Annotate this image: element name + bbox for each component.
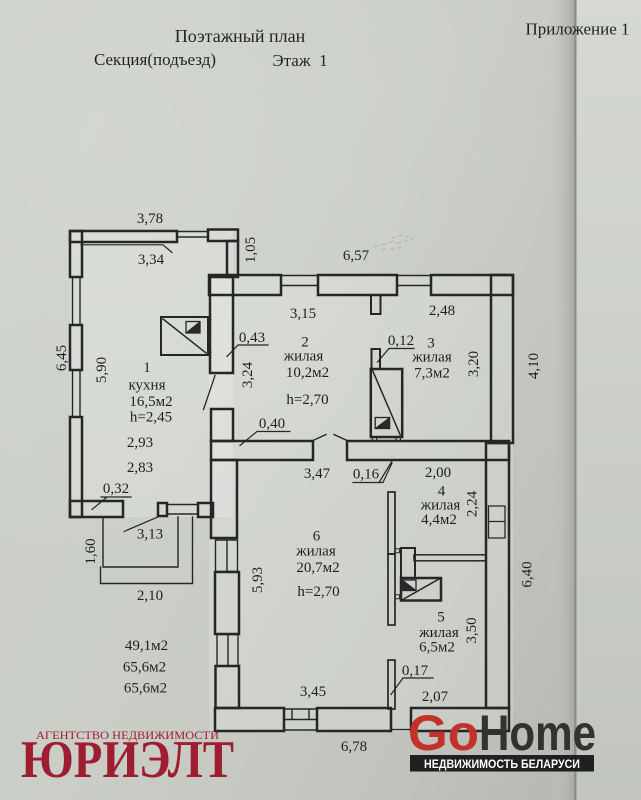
svg-text:10,2м2: 10,2м2 xyxy=(286,365,329,381)
svg-text:жилая: жилая xyxy=(411,350,452,366)
room 6 left wall window 1 xyxy=(216,540,238,572)
right strip beyond page edge xyxy=(577,0,641,800)
pointer 0,17 xyxy=(391,678,433,695)
kitchen bottom wall right block xyxy=(198,503,213,517)
pointer 0,32 xyxy=(92,497,131,510)
svg-text:Go: Go xyxy=(408,705,479,761)
paper shadow band left of page edge xyxy=(548,0,574,800)
svg-text:1,60: 1,60 xyxy=(83,538,99,564)
divider rooms 4-5 thin wall xyxy=(414,555,486,561)
svg-text:5,93: 5,93 xyxy=(250,567,266,593)
svg-text:5,90: 5,90 xyxy=(94,357,110,383)
double door swing at hall opening xyxy=(313,435,347,441)
GoHome band xyxy=(410,755,594,772)
svg-text:Приложение 1: Приложение 1 xyxy=(526,20,630,39)
pointer 0,12 xyxy=(378,349,415,363)
faint pencil note xyxy=(374,235,414,250)
svg-text:20,7м2: 20,7м2 xyxy=(296,560,339,576)
bottom wall solid right xyxy=(411,708,509,731)
svg-text:3,34: 3,34 xyxy=(138,252,165,268)
svg-text:2,00: 2,00 xyxy=(425,465,451,481)
svg-text:1: 1 xyxy=(143,360,151,376)
pointer 0,40 xyxy=(240,432,290,446)
svg-text:49,1м2: 49,1м2 xyxy=(125,638,168,654)
page edge dark line xyxy=(574,0,577,800)
kitchen bottom wall small pier xyxy=(158,503,167,516)
partition ticks xyxy=(395,549,400,599)
svg-text:кухня: кухня xyxy=(128,378,165,394)
svg-text:Home: Home xyxy=(479,705,596,761)
svg-text:Секция(подъезд): Секция(подъезд) xyxy=(94,50,216,69)
left wall window band lower xyxy=(73,370,81,417)
svg-text:65,6м2: 65,6м2 xyxy=(124,681,167,697)
svg-text:6,57: 6,57 xyxy=(343,248,370,264)
svg-text:3,47: 3,47 xyxy=(304,466,331,482)
bottom wall window xyxy=(284,709,317,730)
room 6 left wall solid mid xyxy=(215,572,239,634)
svg-text:2,24: 2,24 xyxy=(465,490,481,517)
partition room6-room5 lower xyxy=(388,660,395,709)
porch step outer xyxy=(101,517,193,584)
svg-text:h=2,45: h=2,45 xyxy=(130,410,172,426)
svg-text:6,5м2: 6,5м2 xyxy=(419,640,455,656)
svg-text:3,78: 3,78 xyxy=(137,211,163,227)
main top wall solid 2 xyxy=(318,275,397,295)
pointer 0,43 xyxy=(227,345,268,357)
hallway wall 0,40 horizontal xyxy=(211,441,313,460)
svg-text:h=2,70: h=2,70 xyxy=(286,392,328,408)
left outer wall solid top xyxy=(70,231,82,277)
svg-text:6: 6 xyxy=(313,529,321,545)
window room 2 in top wall xyxy=(281,276,318,286)
svg-text:2,10: 2,10 xyxy=(137,588,163,604)
window room 3 in top wall xyxy=(397,276,431,286)
svg-text:0,32: 0,32 xyxy=(103,481,129,497)
svg-text:0,17: 0,17 xyxy=(402,663,429,679)
window room 4 right wall xyxy=(489,506,506,538)
right outer wall upper block xyxy=(491,275,513,443)
room 6 left wall solid bottom xyxy=(216,666,240,708)
svg-text:жилая: жилая xyxy=(295,544,336,560)
inner dim line under top wall xyxy=(81,245,172,253)
svg-text:0,16: 0,16 xyxy=(353,467,380,483)
svg-text:жилая: жилая xyxy=(283,349,324,365)
neck wall between porch block and main block xyxy=(227,241,238,277)
stove room 5 xyxy=(401,578,441,601)
svg-text:3,24: 3,24 xyxy=(240,361,256,388)
room 6 left wall solid top xyxy=(211,460,237,538)
chimney stub above stove room 3 xyxy=(372,349,381,369)
partition room6-room5 mid xyxy=(388,554,395,625)
partition stub rooms 2-3 under top wall xyxy=(371,295,381,314)
svg-text:3,20: 3,20 xyxy=(466,351,482,377)
kitchen-room2 divider wall upper xyxy=(210,277,233,373)
bottom wall solid mid xyxy=(317,708,391,731)
svg-text:6,45: 6,45 xyxy=(54,345,70,371)
stove room 3 xyxy=(371,369,402,437)
partition room6-room4 upper xyxy=(388,492,395,554)
svg-text:0,43: 0,43 xyxy=(239,330,265,346)
main top wall solid 1 xyxy=(209,275,281,295)
window in porch top wall xyxy=(177,232,208,238)
hall wall right segment xyxy=(347,441,509,460)
left wall pier block between windows xyxy=(70,325,82,370)
svg-text:3,15: 3,15 xyxy=(290,306,316,322)
svg-text:3,13: 3,13 xyxy=(137,527,163,543)
svg-text:2,83: 2,83 xyxy=(127,460,153,476)
svg-text:2,48: 2,48 xyxy=(429,303,455,319)
svg-text:h=2,70: h=2,70 xyxy=(297,584,339,600)
svg-text:2,93: 2,93 xyxy=(127,435,153,451)
left wall window band upper xyxy=(73,277,81,325)
kitchen bottom wall left part xyxy=(70,501,123,517)
main top wall solid 3 xyxy=(431,275,513,295)
svg-text:0,40: 0,40 xyxy=(259,416,285,432)
right outer wall lower block xyxy=(486,443,509,708)
kitchen stove xyxy=(161,317,208,355)
kitchen bottom wall window xyxy=(167,505,198,515)
svg-text:ЮРИЭЛТ: ЮРИЭЛТ xyxy=(21,731,234,789)
svg-text:4,4м2: 4,4м2 xyxy=(421,512,457,528)
pointer 0,16 xyxy=(353,463,392,483)
svg-text:1,05: 1,05 xyxy=(243,237,259,263)
svg-text:Этаж 1: Этаж 1 xyxy=(272,51,327,70)
wall top of porch block xyxy=(70,231,177,242)
plan footprint lighter paper xyxy=(70,231,233,517)
svg-text:Поэтажный план: Поэтажный план xyxy=(175,26,306,46)
left outer wall solid bottom xyxy=(70,417,82,517)
door leaf room 4 xyxy=(379,462,392,483)
door leaf of kitchen door xyxy=(204,376,216,410)
svg-text:0,12: 0,12 xyxy=(388,333,414,349)
svg-text:65,6м2: 65,6м2 xyxy=(123,660,166,676)
svg-text:7,3м2: 7,3м2 xyxy=(414,366,450,382)
room 6 left wall window 2 xyxy=(217,635,238,667)
chimney room 5 xyxy=(401,548,415,578)
svg-text:2,07: 2,07 xyxy=(422,689,449,705)
svg-text:6,40: 6,40 xyxy=(520,561,536,587)
svg-text:НЕДВИЖИМОСТЬ БЕЛАРУСИ: НЕДВИЖИМОСТЬ БЕЛАРУСИ xyxy=(424,757,580,771)
svg-text:4,10: 4,10 xyxy=(526,353,542,379)
bottom wall solid left xyxy=(215,708,284,731)
corner pier top right of porch block xyxy=(208,230,238,242)
bottom wall door opening xyxy=(391,708,411,731)
kitchen-room2 divider wall lower piece xyxy=(211,409,233,441)
svg-text:5: 5 xyxy=(437,610,445,626)
pointer 3,13 xyxy=(124,516,160,532)
svg-text:3,45: 3,45 xyxy=(300,684,326,700)
svg-text:6,78: 6,78 xyxy=(341,739,367,755)
porch step inner xyxy=(103,517,178,567)
svg-text:3,50: 3,50 xyxy=(464,617,480,643)
svg-text:16,5м2: 16,5м2 xyxy=(129,394,172,410)
